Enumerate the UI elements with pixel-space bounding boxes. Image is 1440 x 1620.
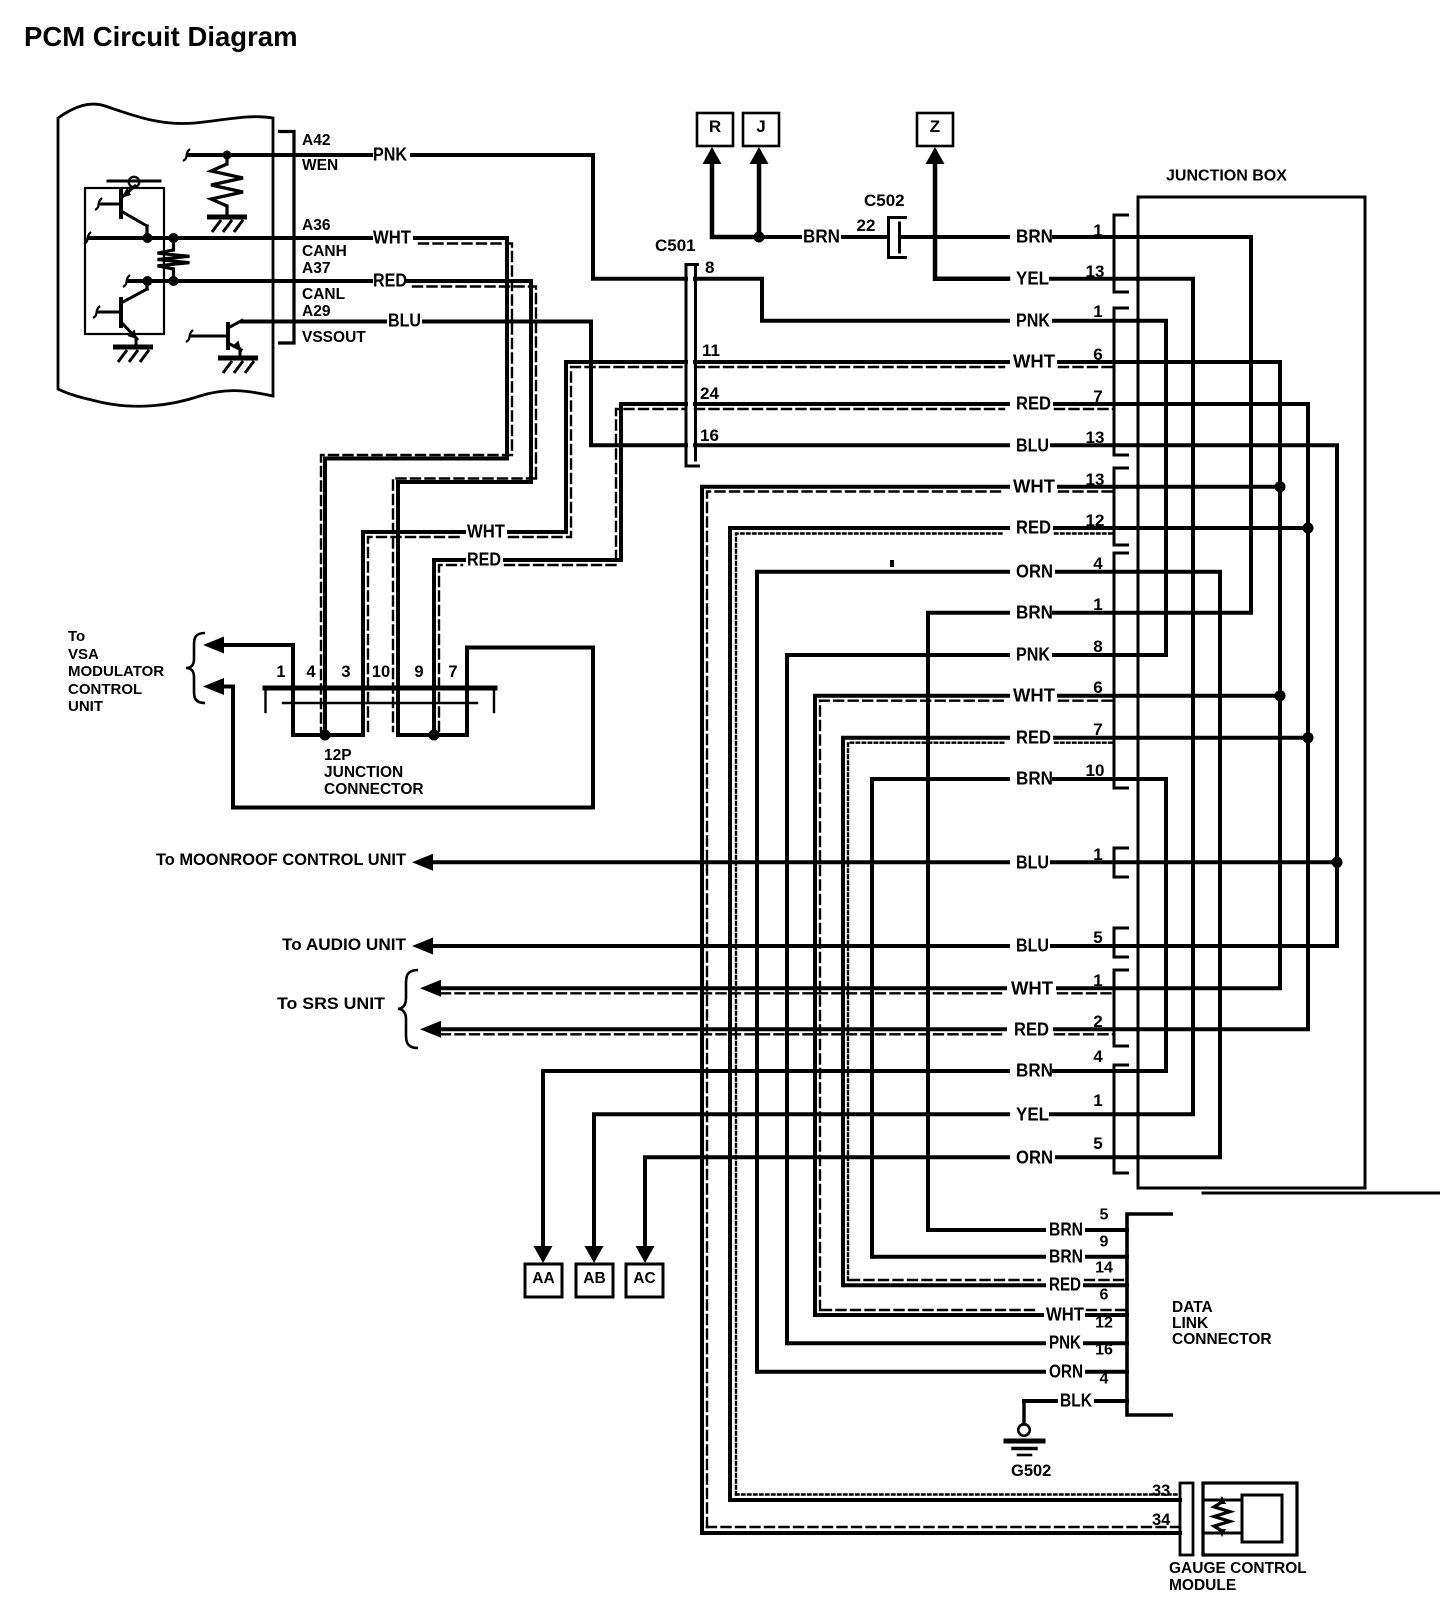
svg-text:7: 7	[1093, 387, 1102, 406]
12P pin 1 column	[291, 690, 295, 735]
wire RED from A37	[294, 279, 371, 283]
svg-text:4: 4	[1100, 1371, 1109, 1388]
svg-text:1: 1	[1093, 302, 1102, 321]
ground G502	[1022, 1401, 1025, 1424]
wire C501 pin 16 to junction box BLU pin 13	[695, 443, 1008, 447]
gauge control module box	[1203, 1483, 1297, 1555]
svg-text:AA: AA	[532, 1270, 554, 1287]
wire PNK pin8 row	[787, 655, 1008, 1343]
junction box internal wire BLU vertical	[1138, 445, 1337, 946]
wire BLU from A29	[294, 320, 385, 324]
wire WHT pin13 dashed stripe	[707, 492, 1004, 1528]
svg-text:BLU: BLU	[1016, 434, 1049, 455]
svg-text:14: 14	[1095, 1260, 1113, 1277]
svg-text:7: 7	[448, 663, 457, 681]
svg-text:BLK: BLK	[1060, 1389, 1093, 1410]
svg-text:33: 33	[1152, 1482, 1170, 1500]
ground under R-top	[207, 215, 247, 220]
svg-text:J: J	[756, 117, 765, 136]
arrow to VSA (upper)	[203, 637, 224, 654]
12P pin 4 column (WHT)	[323, 690, 327, 735]
svg-text:CANL: CANL	[302, 286, 345, 303]
wire BRN from C502 to junction box	[901, 235, 1008, 239]
svg-text:PCM Circuit Diagram: PCM Circuit Diagram	[24, 21, 298, 52]
junction box connector bracket WHT1/RED2	[1114, 970, 1129, 1046]
svg-text:ORN: ORN	[1016, 560, 1053, 581]
wire BLU into junction box	[1052, 443, 1138, 447]
junction box connector bracket WHT13/RED12	[1114, 468, 1129, 545]
PCM connector bracket	[278, 132, 294, 344]
wire to gauge pin 33 (RED)	[730, 1498, 1180, 1502]
12P bottom strap pins 1-3	[293, 733, 363, 737]
svg-text:CONNECTOR: CONNECTOR	[324, 781, 424, 798]
wire RED solid label to C501 pin 24	[505, 404, 686, 560]
svg-text:CANH: CANH	[302, 243, 347, 260]
svg-text:16: 16	[700, 426, 719, 445]
svg-text:22: 22	[857, 216, 876, 235]
junction box connector bracket BRN/YEL	[1114, 215, 1129, 292]
wire BLU moonroof row	[430, 860, 1008, 864]
svg-text:WHT: WHT	[1013, 475, 1056, 496]
wire VSA upper to 12P pin 1	[221, 645, 293, 686]
junction box connector bracket BRN4/YEL1/ORN5	[1114, 1065, 1129, 1173]
wire RED pin12 row	[730, 528, 1008, 1500]
wire PNK DLC pin12 row	[789, 1341, 1044, 1345]
arrow into Z and YEL wire	[926, 147, 945, 164]
wire PNK routing to C501 pin 8	[412, 155, 686, 279]
svg-text:WHT: WHT	[1011, 977, 1054, 998]
svg-text:1: 1	[1093, 221, 1102, 240]
transistor Q1 (PNP, upper left)	[119, 191, 123, 217]
wire BRN pin10 row (to DLC BRN9)	[872, 779, 1008, 1257]
svg-text:RED: RED	[1014, 1018, 1049, 1039]
wire WHT pin6 dashed stripe	[820, 701, 1004, 1310]
svg-text:6: 6	[1093, 345, 1102, 364]
wire WHT pin6 row	[815, 696, 1008, 1315]
svg-text:4: 4	[1093, 554, 1103, 573]
svg-text:2: 2	[1093, 1012, 1102, 1031]
wire RED pin12 dotted stripe	[736, 534, 1004, 1495]
12P pin 3 column	[361, 690, 365, 735]
junction box internal wire WHT vertical	[1138, 362, 1280, 988]
arrow to moonroof	[412, 854, 433, 871]
svg-text:ORN: ORN	[1016, 1146, 1053, 1167]
wire RED SRS dashed stripe	[441, 1033, 1002, 1035]
svg-text:7: 7	[1093, 720, 1102, 739]
connector AC box	[626, 1264, 663, 1297]
svg-text:BRN: BRN	[1016, 225, 1053, 246]
DLC bracket	[1127, 1214, 1173, 1415]
A36 CANH wire inside PCM	[90, 236, 294, 240]
wire BLU audio row	[430, 944, 1008, 948]
svg-text:8: 8	[1093, 637, 1102, 656]
wire BRN pin4 row to AA	[543, 1071, 1008, 1249]
svg-text:RED: RED	[1049, 1273, 1081, 1294]
wire RED solid from 12P pin 9 up to label	[434, 560, 464, 735]
brace for VSA unit	[186, 633, 205, 703]
svg-text:12: 12	[1095, 1315, 1113, 1332]
junction dot on WEN line	[223, 151, 232, 160]
junction box connector bracket BLU1	[1114, 848, 1129, 877]
junction box internal WHT row 13 feed	[1138, 485, 1280, 489]
transistor Q3 (NPN, lower right)	[226, 324, 230, 348]
svg-text:BRN: BRN	[803, 225, 840, 246]
wire RED dashed stripe mid-route	[439, 565, 462, 731]
wire BRN from R/J to C502	[759, 235, 800, 239]
junction dot pin 9 to strap	[429, 730, 440, 741]
svg-text:5: 5	[1093, 1134, 1102, 1153]
12P bottom strap pins 10-7	[398, 733, 467, 737]
svg-text:6: 6	[1100, 1287, 1109, 1304]
svg-text:A36: A36	[302, 217, 331, 234]
internal sub-box	[85, 188, 164, 334]
svg-text:WHT: WHT	[373, 226, 412, 247]
svg-text:12P: 12P	[324, 747, 352, 764]
svg-text:8: 8	[705, 258, 714, 277]
wire WHT from C501 pin 11 to junction box WHT pin 6	[695, 360, 1008, 364]
junction box connector bracket PNK/WHT/RED/BLU	[1114, 308, 1129, 455]
wire WHT from A36	[294, 236, 371, 240]
junction dot pin 4 to strap	[320, 730, 331, 741]
junction box internal wire BRN vertical	[1138, 237, 1251, 613]
svg-text:WHT: WHT	[1013, 350, 1056, 371]
svg-text:ORN: ORN	[1049, 1360, 1083, 1381]
svg-text:BRN: BRN	[1016, 1059, 1053, 1080]
svg-text:9: 9	[1100, 1234, 1109, 1251]
svg-text:To MOONROOF CONTROL UNIT: To MOONROOF CONTROL UNIT	[156, 851, 406, 869]
svg-text:13: 13	[1086, 470, 1105, 489]
12P pin 9 column	[432, 690, 436, 735]
arrow into AA	[534, 1246, 553, 1263]
svg-text:BRN: BRN	[1016, 767, 1053, 788]
svg-text:G502: G502	[1011, 1462, 1051, 1480]
junction dots on CANH/CANL lines	[143, 233, 153, 243]
svg-text:1: 1	[1093, 595, 1102, 614]
arrow into AB	[585, 1246, 604, 1263]
svg-text:AC: AC	[633, 1270, 655, 1287]
svg-text:UNIT: UNIT	[68, 698, 103, 715]
wire WHT DLC pin6 row	[817, 1313, 1042, 1317]
svg-text:CONTROL: CONTROL	[68, 681, 142, 698]
connector AB box	[576, 1264, 613, 1297]
junction box internal RED row 12 feed	[1138, 526, 1308, 530]
wire YEL pin1 row to AB	[594, 1114, 1008, 1249]
junction box internal wire ORN vertical	[1138, 572, 1220, 1158]
svg-text:RED: RED	[467, 548, 501, 569]
connector Z box	[917, 113, 953, 146]
svg-text:LINK: LINK	[1172, 1315, 1209, 1332]
svg-text:To SRS UNIT: To SRS UNIT	[277, 995, 385, 1013]
wire WHT dashed stripe to 12P pin 4	[419, 244, 512, 456]
svg-text:34: 34	[1152, 1511, 1171, 1529]
wire BLK DLC pin4 row	[1024, 1399, 1056, 1403]
wire VSA lower loop to 12P pin 7	[221, 648, 593, 808]
junction box internal wire BRN lower vertical	[1138, 779, 1166, 1071]
svg-text:1: 1	[276, 663, 285, 681]
junction box internal wire RED vertical	[1138, 404, 1308, 1029]
svg-text:PNK: PNK	[1016, 309, 1051, 330]
svg-text:5: 5	[1100, 1207, 1109, 1224]
stray print mark	[890, 560, 894, 567]
wire BRN DLC pin9 row	[874, 1255, 1044, 1259]
wire ORN pin4 row	[757, 572, 1008, 1372]
arrow into J	[750, 147, 769, 164]
svg-text:1: 1	[1093, 1091, 1102, 1110]
wire ORN DLC pin16 row	[759, 1370, 1044, 1374]
junction box connector bracket BLU5	[1114, 928, 1129, 957]
wire C501 pin 8 to junction box PNK pin 1	[695, 279, 1008, 321]
svg-text:WHT: WHT	[1046, 1303, 1085, 1324]
junction dot RED pin12	[1303, 523, 1314, 534]
12P junction connector body bars	[265, 686, 495, 691]
svg-text:5: 5	[1093, 928, 1102, 947]
svg-text:1: 1	[1093, 845, 1102, 864]
gauge internal wiring and resistor	[1203, 1192, 1440, 1195]
gauge connector bar	[1180, 1483, 1193, 1555]
wire BRN pin1 row (to DLC BRN5)	[928, 613, 1008, 1230]
wire PNK into junction box	[1054, 319, 1138, 323]
arrow SRS upper	[420, 980, 441, 997]
junction box internal wire YEL vertical	[1138, 279, 1193, 1115]
arrow SRS lower	[420, 1021, 441, 1038]
svg-text:9: 9	[414, 663, 423, 681]
svg-text:A42: A42	[302, 132, 330, 149]
svg-text:VSSOUT: VSSOUT	[302, 329, 366, 346]
junction dot WHT pin13	[1275, 481, 1286, 492]
junction dot WHT pin6	[1275, 690, 1286, 701]
svg-text:MODULE: MODULE	[1169, 1577, 1236, 1594]
junction box internal WHT row 6 feed	[1138, 694, 1280, 698]
wire BRN DLC pin5 row	[930, 1228, 1044, 1232]
junction box internal BLU row 1 feed	[1138, 860, 1337, 864]
svg-text:16: 16	[1095, 1342, 1113, 1359]
svg-text:BLU: BLU	[1016, 934, 1049, 955]
ground under Q2	[113, 345, 153, 350]
svg-text:A37: A37	[302, 260, 330, 277]
wire BLU routing to C501 pin 16	[424, 322, 686, 446]
svg-text:To AUDIO UNIT: To AUDIO UNIT	[282, 936, 406, 954]
wire RED pin7 row	[843, 738, 1008, 1286]
svg-text:RED: RED	[1016, 726, 1051, 747]
wire RED solid to 12P pin 10	[398, 281, 531, 735]
svg-text:BRN: BRN	[1049, 1218, 1083, 1239]
svg-text:C501: C501	[655, 236, 696, 255]
connector AA box	[525, 1264, 562, 1297]
connector J box	[743, 113, 779, 146]
svg-text:BLU: BLU	[388, 309, 421, 330]
svg-text:MODULATOR: MODULATOR	[68, 663, 164, 680]
svg-text:PNK: PNK	[1016, 643, 1051, 664]
12P pin 7 column	[465, 690, 469, 735]
arrow to audio	[412, 938, 433, 955]
junction dot at J arrow base	[754, 232, 765, 243]
PCM module torn-edge outline	[58, 104, 273, 406]
svg-text:PNK: PNK	[1049, 1331, 1082, 1352]
junction box internal wire PNK vertical	[1138, 321, 1166, 655]
wire WHT SRS dashed stripe	[441, 992, 1002, 994]
svg-text:JUNCTION BOX: JUNCTION BOX	[1166, 168, 1287, 185]
arrow to VSA (lower)	[203, 678, 224, 695]
svg-text:JUNCTION: JUNCTION	[324, 764, 403, 781]
junction dot BLU pin1	[1332, 857, 1343, 868]
A42 WEN wire inside PCM	[189, 153, 294, 157]
gauge internal component box	[1242, 1495, 1282, 1542]
svg-text:DATA: DATA	[1172, 1299, 1213, 1316]
junction box connector bracket ORN..BRN10	[1114, 553, 1129, 788]
brace for SRS unit	[398, 970, 418, 1048]
svg-text:RED: RED	[1016, 516, 1051, 537]
wire gauge 34 dashed stripe	[707, 1526, 1180, 1528]
wire WHT solid to 12P pin 4	[325, 238, 507, 735]
wire RED DLC dashed stripe	[850, 1279, 1040, 1281]
svg-text:4: 4	[1093, 1047, 1103, 1066]
svg-text:11: 11	[702, 341, 720, 360]
arrow into AC	[636, 1246, 655, 1263]
junction box internal RED row 7 feed	[1138, 736, 1308, 740]
svg-text:13: 13	[1086, 262, 1105, 281]
svg-text:CONNECTOR: CONNECTOR	[1172, 1331, 1272, 1348]
wire RED pin7 dotted stripe	[848, 743, 1004, 1280]
svg-text:RED: RED	[1016, 392, 1051, 413]
ground under Q3	[218, 356, 258, 361]
svg-text:WHT: WHT	[467, 520, 506, 541]
svg-text:BRN: BRN	[1049, 1245, 1083, 1266]
wire WHT solid from 12P pin 3 up to label	[363, 532, 464, 735]
wire RED dashed stripe to 12P pin 10	[413, 287, 536, 479]
JUNCTION BOX outline	[1138, 197, 1365, 1188]
svg-text:YEL: YEL	[1016, 1103, 1049, 1124]
pull-up resistor R-top on WEN line	[225, 155, 228, 164]
svg-text:To: To	[68, 628, 85, 645]
wire WHT SRS row	[438, 986, 1005, 990]
wire WHT pin13 row	[702, 487, 1008, 1533]
wire WHT solid label to C501 pin 11	[509, 362, 686, 532]
svg-text:10: 10	[372, 663, 390, 681]
svg-text:WHT: WHT	[1013, 684, 1056, 705]
arrow into R	[703, 147, 722, 164]
svg-text:RED: RED	[373, 269, 407, 290]
svg-text:C502: C502	[864, 191, 905, 210]
CAN termination resistor R-mid	[172, 238, 175, 250]
junction dot RED pin7	[1303, 732, 1314, 743]
wire WHT dashed stripe mid-route	[368, 537, 462, 731]
svg-text:WEN: WEN	[302, 157, 338, 174]
svg-text:YEL: YEL	[1016, 267, 1049, 288]
svg-text:VSA: VSA	[68, 646, 99, 663]
svg-text:1: 1	[1093, 971, 1102, 990]
wire RED from C501 pin 24 to junction box RED pin 7	[695, 402, 1008, 406]
12P pin 10 column (RED)	[396, 690, 400, 735]
wire PNK from A42 to C501	[294, 153, 371, 157]
svg-text:GAUGE CONTROL: GAUGE CONTROL	[1169, 1560, 1307, 1577]
wire gauge 33 dotted stripe	[736, 1493, 1180, 1495]
svg-text:AB: AB	[583, 1270, 605, 1287]
svg-text:R: R	[709, 117, 721, 136]
svg-text:3: 3	[341, 663, 350, 681]
svg-text:A29: A29	[302, 303, 331, 320]
svg-text:12: 12	[1086, 511, 1105, 530]
wire to gauge pin 34 (WHT)	[702, 1531, 1180, 1535]
svg-text:BLU: BLU	[1016, 851, 1049, 872]
svg-text:24: 24	[700, 384, 719, 403]
wire RED SRS row	[438, 1027, 1005, 1031]
svg-text:4: 4	[306, 663, 316, 681]
svg-text:BRN: BRN	[1016, 601, 1053, 622]
connector R box	[697, 113, 733, 146]
svg-text:6: 6	[1093, 678, 1102, 697]
wire RED DLC pin14 row	[845, 1283, 1044, 1287]
transistor Q2 (NPN, lower left)	[119, 299, 123, 326]
svg-text:10: 10	[1086, 761, 1105, 780]
svg-text:PNK: PNK	[373, 143, 408, 164]
svg-text:13: 13	[1086, 428, 1105, 447]
wire ORN pin5 row to AC	[645, 1157, 1008, 1249]
svg-text:Z: Z	[930, 117, 940, 136]
A29 VSSOUT wire inside PCM	[242, 320, 294, 324]
A37 CANL wire inside PCM	[129, 279, 294, 283]
wire WHT DLC dashed stripe	[822, 1309, 1038, 1311]
